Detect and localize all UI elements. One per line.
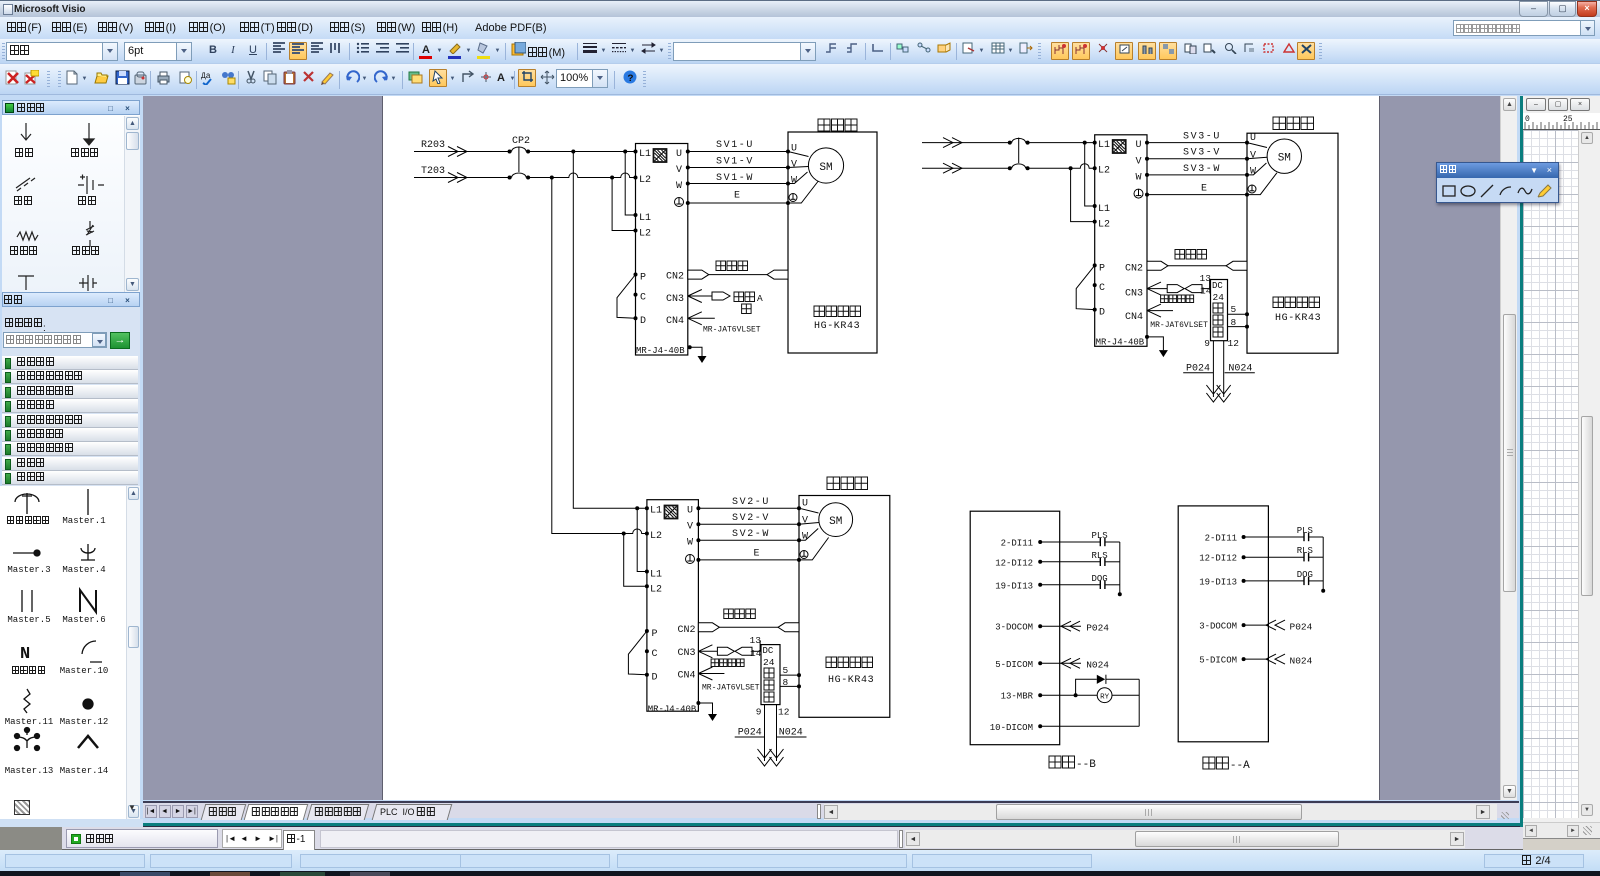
M2 ground terminal [1245, 185, 1256, 197]
svg-text:14: 14 [750, 648, 762, 659]
contact RLS B [1040, 551, 1120, 566]
wire K3 pin 12 to N024 [776, 705, 778, 761]
detail A terminal box [1178, 506, 1268, 742]
wire U1 control L1 [625, 152, 635, 216]
node R-B [623, 150, 627, 154]
svg-text:W: W [802, 532, 808, 543]
svg-text:P: P [1099, 263, 1105, 274]
U3 pin P [645, 629, 658, 640]
svg-text:12-DI12: 12-DI12 [1199, 554, 1237, 564]
svg-text:5: 5 [783, 665, 789, 676]
wire CN3 to relay 3 [752, 641, 761, 651]
label see-detail-B 2 [1161, 295, 1194, 303]
wire 13-MBR to relay coil [1040, 693, 1097, 697]
M2 pin W [1245, 166, 1256, 177]
label U3 type [648, 704, 697, 714]
ground symbol U1 [698, 356, 707, 363]
M2 pin V [1245, 150, 1256, 161]
label 8-3 [783, 677, 789, 688]
svg-text:2-DI11: 2-DI11 [1205, 534, 1237, 544]
servo amplifier U3 MR-J4-40B box [647, 500, 699, 712]
svg-text:SV3-W: SV3-W [1183, 164, 1221, 175]
U1 pin L2 [634, 175, 652, 186]
svg-text:24: 24 [763, 657, 775, 668]
CN2 encoder cable 2 [1147, 261, 1247, 270]
label 13 [1200, 273, 1212, 284]
CN3 plug [712, 292, 730, 300]
label see-detail-A [734, 292, 763, 304]
CN3 arrow 3 [698, 645, 717, 658]
U3 pin L2 [645, 531, 662, 542]
motor M3 SM circle [819, 503, 853, 537]
wire phase input 2a [922, 138, 1010, 148]
svg-text:PLS: PLS [1092, 531, 1108, 541]
label P024 net 2 [1183, 363, 1213, 374]
svg-text:L1: L1 [1098, 204, 1110, 215]
svg-text:0: 0 [1525, 115, 1530, 124]
M3 pin U [797, 499, 808, 511]
wire SV1-W [688, 183, 788, 185]
CN4 arrow 3 [698, 667, 724, 680]
label encoder cable [716, 261, 748, 271]
label encoder cable 3 [724, 609, 756, 619]
wire K2 pin 8 [1228, 325, 1250, 329]
label SV3-V [1183, 148, 1221, 159]
U2 CN4 label [1125, 312, 1143, 323]
wire drop to SV2 L2 with hop [552, 178, 647, 534]
label T203 [421, 166, 445, 177]
wire SV2-V [698, 523, 799, 525]
ground symbol U3 [708, 714, 717, 721]
svg-text:W: W [687, 538, 693, 549]
svg-text:PLS: PLS [1297, 526, 1313, 536]
detail B pin 10-DICOM [990, 723, 1042, 733]
ground symbol U2 [1159, 350, 1168, 357]
contact RLS A [1244, 546, 1324, 561]
contact PLS A [1244, 526, 1324, 541]
servo motor M1 box [788, 132, 877, 353]
wire RY to bus [1112, 694, 1139, 696]
node 3T junction [622, 532, 626, 536]
bus detail A [1321, 537, 1325, 593]
svg-text:13: 13 [750, 635, 762, 646]
wire K3 pin 8 [780, 684, 801, 688]
CN3 arrow [688, 290, 712, 303]
wire SV1-V [688, 167, 788, 169]
svg-text:CP2: CP2 [512, 136, 530, 147]
breaker CP2 pole R [508, 147, 530, 153]
svg-text:MR-J4-40B: MR-J4-40B [636, 346, 685, 356]
U1 pin L1 control [634, 213, 652, 224]
motor M2 SM circle [1267, 139, 1301, 173]
wire drop to SV2 L1 [573, 152, 647, 509]
wire U2 control L1 [1085, 143, 1095, 206]
detail A pin 19-DI13 [1199, 577, 1245, 587]
U1 ground wire [688, 345, 702, 356]
svg-text:13: 13 [1200, 273, 1212, 284]
detail B terminal box [970, 511, 1059, 745]
CN4 arrow 2 [1147, 304, 1173, 317]
U3 CN3 label [678, 648, 696, 659]
U2 charge lamp icon [1113, 140, 1126, 153]
wire 5-DICOM A to N024 [1244, 654, 1313, 666]
svg-text:SM: SM [1278, 153, 1291, 165]
svg-text:CN3: CN3 [678, 648, 696, 659]
svg-text:V: V [676, 165, 682, 176]
contact DOG B [1040, 574, 1120, 589]
svg-text:L1: L1 [650, 506, 662, 517]
svg-text:HG-KR43: HG-KR43 [1275, 313, 1321, 324]
label SV2-V [732, 513, 770, 524]
label see-detail-B 3 [711, 659, 744, 667]
svg-text:L1: L1 [639, 149, 651, 160]
detail B pin 13-MBR [1001, 692, 1043, 702]
label N024 net 2 [1225, 363, 1255, 374]
U1 pin W [676, 181, 690, 192]
U2 pin L2 [1093, 166, 1110, 177]
label detail A title [1203, 757, 1250, 772]
svg-text:CN4: CN4 [1125, 312, 1143, 323]
U3 pin W [687, 538, 700, 549]
wire SV3-U [1147, 142, 1247, 144]
wire 3-DOCOM B to P024 [1040, 621, 1109, 633]
svg-text:3-DOCOM: 3-DOCOM [1199, 622, 1237, 632]
wire phase input 2b [922, 163, 1010, 173]
svg-text:19-DI13: 19-DI13 [995, 581, 1033, 591]
wire E3 ground [698, 559, 799, 561]
label M3 type [826, 657, 874, 686]
breaker CP2 pole T [508, 173, 530, 179]
svg-text:5: 5 [1231, 304, 1237, 315]
M2 terminal leads [1247, 143, 1277, 195]
node 2R [1083, 141, 1087, 145]
U3 pin V [687, 522, 700, 533]
U2 CN3 label [1125, 289, 1143, 300]
svg-text:N: N [20, 645, 30, 664]
wire SV3-W [1147, 174, 1247, 176]
svg-text:--A: --A [1230, 760, 1250, 772]
U2 pin C [1093, 283, 1105, 294]
wire K3 pin 5 [780, 673, 801, 677]
U3 charge lamp icon [665, 506, 678, 519]
wire CN3 to relay 2 [1202, 280, 1211, 290]
M1 pin U [786, 144, 797, 155]
wire 10-DICOM B [1040, 725, 1139, 727]
breaker CP3 linkage [1018, 138, 1020, 163]
U1 CN4 label [666, 316, 684, 327]
M1 ground terminal [786, 194, 797, 206]
svg-text:V: V [791, 160, 797, 171]
svg-text:MR-JAT6VLSET: MR-JAT6VLSET [703, 326, 761, 335]
detail A pin 12-DI12 [1199, 554, 1245, 564]
wire E ground [688, 202, 788, 204]
svg-text:V: V [1136, 156, 1142, 167]
wire U3 control L2 [624, 534, 647, 587]
wire to U2 L1 [1028, 142, 1095, 144]
svg-text:P024: P024 [1290, 621, 1313, 632]
svg-text:D: D [652, 673, 658, 684]
svg-text:D: D [1099, 308, 1105, 319]
label 12 [1228, 338, 1240, 349]
label SV1-W [716, 173, 754, 184]
svg-text:CN3: CN3 [1125, 289, 1143, 300]
wire SV3-V [1147, 158, 1247, 160]
U1 pin P [634, 273, 647, 284]
label 12-3 [778, 707, 790, 718]
label SV2-W [732, 529, 770, 540]
node T-A [550, 176, 554, 180]
contact DOG A [1244, 570, 1324, 585]
svg-text:RLS: RLS [1092, 551, 1108, 561]
svg-text:SV1-W: SV1-W [716, 173, 754, 184]
svg-text:L1: L1 [639, 213, 651, 224]
wire K2 pin 5 [1228, 312, 1250, 316]
label encoder cable 2 [1175, 250, 1207, 260]
U2 ground wire [1145, 335, 1163, 350]
U1 pin V [676, 165, 690, 176]
svg-text:L2: L2 [650, 531, 662, 542]
svg-text:5-DICOM: 5-DICOM [1199, 656, 1237, 666]
wire P-D bridge U2 [1076, 265, 1095, 309]
servo amplifier U2 MR-J4-40B box [1095, 135, 1147, 346]
detail A pin 2-DI11 [1205, 534, 1246, 544]
detail A pin 5-DICOM [1199, 656, 1245, 666]
U2 pin L1 [1093, 140, 1110, 151]
wire U3 control L1 [637, 508, 647, 571]
U2 pin U [1136, 140, 1150, 151]
bus detail B [1118, 542, 1122, 596]
svg-text:U: U [1136, 140, 1142, 151]
svg-text:C: C [652, 649, 658, 660]
wire right leg B [1138, 679, 1140, 726]
svg-text:R203: R203 [421, 140, 445, 151]
svg-text:E: E [734, 191, 740, 202]
svg-text:MR-JAT6VLSET: MR-JAT6VLSET [702, 684, 760, 693]
wire U2 control L2 [1071, 168, 1095, 221]
U2 CN2 label [1125, 264, 1143, 275]
wire to U2 L2 with hop [1028, 164, 1095, 169]
svg-text:2-DI11: 2-DI11 [1001, 539, 1033, 549]
U3 pin L1 control [645, 570, 662, 581]
wire T203 to U1 L2 with hops [528, 173, 635, 177]
M1 terminal leads [788, 152, 818, 204]
CN3 plug pair 3 [717, 647, 752, 655]
wire K2 pin 9 to P024 [1212, 341, 1214, 397]
svg-text:13-MBR: 13-MBR [1001, 692, 1034, 702]
U3 pin L2 control [645, 584, 662, 595]
servo amplifier U1 MR-J4-40B box [636, 144, 688, 356]
M3 ground terminal [797, 551, 808, 562]
label CN4 cable type 3 [702, 684, 760, 693]
U2 pin P [1093, 263, 1105, 274]
svg-text:CN3: CN3 [666, 294, 684, 305]
contact PLS B [1040, 531, 1120, 546]
detail B pin 19-DI13 [995, 581, 1042, 591]
svg-text:W: W [1136, 172, 1142, 183]
svg-text:5-DICOM: 5-DICOM [995, 660, 1033, 670]
wire K3 pin 9 to P024 [764, 705, 766, 761]
svg-text:RY: RY [1100, 694, 1110, 702]
breaker CP3 pole a [1008, 138, 1030, 144]
svg-text:U: U [687, 506, 693, 517]
svg-text:SM: SM [829, 516, 842, 528]
U2 pin L1 control [1093, 204, 1110, 215]
CN2 encoder cable [688, 270, 788, 279]
label SV3-U [1183, 131, 1221, 142]
svg-text:E: E [1201, 183, 1207, 194]
U1 pin L1 [634, 149, 652, 160]
svg-text:SV3-U: SV3-U [1183, 131, 1221, 142]
label SV1-U [716, 140, 754, 151]
label R203 [421, 140, 445, 151]
CN2 encoder cable 3 [698, 623, 799, 632]
label 5 [1231, 304, 1237, 315]
svg-text:U: U [802, 499, 808, 510]
M3 terminal leads [799, 508, 829, 560]
relay K2 DC24 box [1211, 280, 1228, 341]
diode D1 branch [1076, 675, 1140, 696]
label detail B title [1049, 756, 1096, 771]
wire P-D bridge U1 [617, 275, 636, 319]
U2 ground terminal [1134, 189, 1149, 198]
svg-text:SV2-U: SV2-U [732, 497, 770, 508]
label CP2 [512, 136, 530, 147]
svg-text:DC: DC [763, 646, 774, 656]
svg-text:CN2: CN2 [666, 272, 684, 283]
svg-text:19-DI13: 19-DI13 [1199, 577, 1237, 587]
detail B pin 3-DOCOM [995, 623, 1042, 633]
label axis title 2 [1273, 117, 1314, 130]
svg-text:E: E [754, 549, 760, 560]
U3 CN4 label [678, 671, 696, 682]
svg-text:C: C [640, 293, 646, 304]
wire U1 control L2 [612, 178, 635, 231]
svg-text:12: 12 [778, 707, 790, 718]
breaker CP3 pole b [1008, 164, 1030, 170]
U1 CN2 label [666, 272, 684, 283]
svg-text:V: V [802, 516, 808, 527]
off-page chevrons P024-2 [1206, 385, 1220, 402]
CN4 arrow [688, 312, 715, 325]
svg-text:12-DI12: 12-DI12 [995, 558, 1033, 568]
svg-text:25: 25 [1563, 115, 1573, 124]
U2 pin L2 control [1093, 220, 1110, 231]
label SV3-W [1183, 164, 1221, 175]
node 2T [1069, 166, 1073, 170]
U3 CN2 label [678, 625, 696, 636]
svg-text:V: V [1250, 150, 1256, 161]
svg-text:MR-JAT6VLSET: MR-JAT6VLSET [1150, 321, 1208, 330]
M2 pin U [1245, 133, 1256, 145]
svg-text:W: W [676, 181, 682, 192]
servo motor M2 box [1247, 133, 1338, 353]
label E3 [754, 549, 760, 560]
U3 pin C [645, 649, 658, 660]
svg-text:SM: SM [819, 162, 832, 174]
label CN4 cable type 2 [1150, 321, 1208, 330]
label N024 net 3 [777, 728, 807, 739]
relay coil RY [1097, 688, 1112, 703]
svg-text:N024: N024 [1086, 660, 1109, 671]
M3 pin W [797, 532, 808, 543]
U3 pin U [687, 506, 700, 517]
M1 pin W [786, 176, 797, 187]
wire SV1-U [688, 151, 788, 153]
label axis title 1 [818, 119, 857, 131]
label CN4 cable type 1 [703, 326, 761, 335]
detail B pin 5-DICOM [995, 660, 1042, 670]
label M2 type [1273, 297, 1321, 324]
wire R203 to U1 L1 [528, 151, 635, 153]
svg-text:C: C [1099, 283, 1105, 294]
off-page chevrons N024-3 [770, 749, 784, 766]
svg-text:P: P [652, 629, 658, 640]
CN3 plug pair 2 [1167, 285, 1202, 293]
svg-text:9: 9 [1204, 338, 1210, 349]
svg-text:CN2: CN2 [678, 625, 696, 636]
svg-text:24: 24 [1213, 292, 1225, 303]
svg-text:W: W [791, 176, 797, 187]
label U2 type [1096, 338, 1145, 348]
svg-text:?: ? [627, 74, 633, 85]
wire SV2-U [698, 507, 799, 509]
svg-text:--B: --B [1076, 759, 1096, 771]
svg-text:MR-J4-40B: MR-J4-40B [648, 704, 697, 714]
svg-text:D: D [640, 316, 646, 327]
wire R203 phase input [414, 147, 510, 157]
U3 pin D [645, 673, 658, 684]
svg-text:HG-KR43: HG-KR43 [814, 321, 860, 332]
breaker CP2 linkage [518, 147, 520, 173]
label U1 type [636, 346, 685, 356]
U2 pin V [1136, 156, 1150, 167]
svg-text:MR-J4-40B: MR-J4-40B [1096, 338, 1145, 348]
wire 5-DICOM B to N024 [1040, 658, 1109, 670]
U2 pin D [1093, 308, 1105, 319]
svg-text:CN2: CN2 [1125, 264, 1143, 275]
svg-text:L2: L2 [1098, 166, 1110, 177]
label 14-3 [750, 648, 762, 659]
svg-text:CN4: CN4 [666, 316, 684, 327]
wire T203 phase input [414, 173, 510, 183]
svg-text:9: 9 [756, 707, 762, 718]
label axis title 3 [827, 477, 868, 490]
M3 pin V [797, 516, 808, 527]
off-page chevrons P024-3 [758, 749, 772, 766]
U1 pin U [676, 149, 690, 160]
svg-text:12: 12 [1228, 338, 1240, 349]
motor M1 SM circle [808, 148, 843, 183]
svg-text:U: U [676, 149, 682, 160]
svg-text:10-DICOM: 10-DICOM [990, 723, 1033, 733]
svg-text:V: V [687, 522, 693, 533]
label SV1-V [716, 157, 754, 168]
U2 pin W [1136, 172, 1150, 183]
svg-text:L2: L2 [639, 229, 651, 240]
M1 pin V [786, 160, 797, 171]
wire SV2-W [698, 539, 799, 541]
CN3 arrow 2 [1147, 282, 1169, 295]
U3 ground terminal [686, 555, 701, 564]
label 5-3 [783, 665, 789, 676]
svg-text:SV2-W: SV2-W [732, 529, 770, 540]
svg-text:CN4: CN4 [678, 671, 696, 682]
svg-text:DOG: DOG [1092, 574, 1108, 584]
svg-text:8: 8 [783, 677, 789, 688]
label 9-3 [756, 707, 762, 718]
wire 3-DOCOM A to P024 [1244, 620, 1313, 632]
svg-text:DC: DC [1212, 281, 1223, 291]
